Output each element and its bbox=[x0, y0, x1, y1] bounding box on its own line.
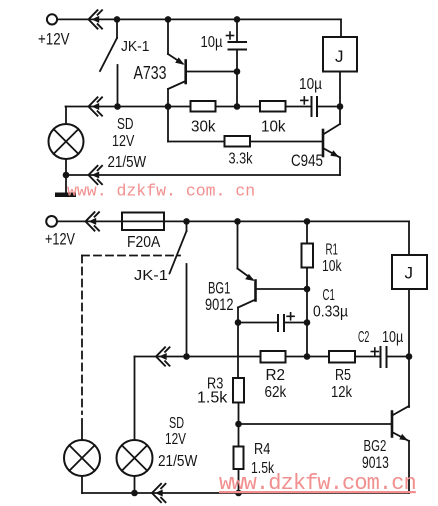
wire break mark bbox=[86, 212, 100, 230]
wire break mark rail4 bbox=[89, 166, 103, 184]
wire break mark (top rail) bbox=[89, 10, 103, 28]
wire break mark rail2 bbox=[89, 97, 103, 115]
svg-text:C2: C2 bbox=[358, 329, 369, 346]
node dots C1 bbox=[235, 319, 242, 326]
svg-text:J: J bbox=[335, 47, 344, 66]
node dot lamp bottom bbox=[63, 172, 70, 179]
label BG2 9013 bbox=[362, 438, 389, 472]
label SD 12V 21/5W bbox=[108, 116, 147, 171]
terminal +12V (top circuit) bbox=[47, 14, 57, 24]
resistor R2 bbox=[261, 351, 286, 363]
switch JK-1 (bottom circuit) bbox=[170, 221, 187, 356]
lamp SD (top circuit) bbox=[49, 107, 84, 194]
label C2 10u bbox=[358, 329, 403, 346]
wire rail3 (3.3k row) bbox=[168, 141, 323, 143]
wire top rail (bottom circuit) bbox=[57, 220, 409, 222]
node dot top rail / JK-1 bbox=[114, 16, 121, 23]
svg-text:www.dzkfw.com.cn: www.dzkfw.com.cn bbox=[219, 471, 416, 496]
transistor C945 (NPN) bbox=[323, 107, 340, 176]
label R3 1.5k bbox=[197, 376, 228, 407]
svg-text:10µ: 10µ bbox=[382, 329, 403, 346]
svg-text:12k: 12k bbox=[331, 384, 353, 401]
node dot R4/rail bbox=[235, 490, 242, 497]
svg-text:1.5k: 1.5k bbox=[197, 390, 228, 407]
node dot BG2 base bbox=[235, 421, 242, 428]
lamp 1 (bottom circuit) bbox=[64, 419, 100, 493]
svg-text:10µ: 10µ bbox=[299, 76, 322, 93]
svg-text:J: J bbox=[405, 264, 414, 283]
svg-text:12V: 12V bbox=[112, 133, 135, 150]
mechanical link (dashed) bbox=[82, 256, 180, 415]
resistor R3 bbox=[233, 378, 244, 447]
label SD 12V 21/5W (bottom) bbox=[158, 415, 198, 470]
resistor 30k bbox=[191, 101, 216, 112]
wire break mark bottom rail bbox=[152, 484, 166, 502]
transistor BG2 (NPN 9013) bbox=[239, 406, 410, 493]
wire break mark rail356 bbox=[156, 347, 170, 365]
relay J (top circuit) bbox=[323, 19, 357, 106]
label C1 0.33u bbox=[313, 287, 348, 321]
relay J (bottom circuit) bbox=[392, 221, 427, 407]
svg-text:R1: R1 bbox=[326, 242, 339, 259]
node dot C2/rail bbox=[406, 353, 413, 360]
svg-text:R2: R2 bbox=[266, 367, 286, 384]
resistor 3.3k bbox=[225, 136, 251, 147]
fuse F20A bbox=[122, 213, 164, 231]
svg-text:10µ: 10µ bbox=[201, 34, 223, 51]
svg-text:+12V: +12V bbox=[45, 231, 75, 249]
svg-text:10k: 10k bbox=[322, 258, 342, 275]
svg-text:A733: A733 bbox=[134, 62, 167, 83]
svg-text:C1: C1 bbox=[323, 287, 335, 304]
svg-text:21/5W: 21/5W bbox=[158, 453, 198, 470]
label R4 1.5k bbox=[251, 441, 275, 477]
label R1 10k bbox=[322, 242, 342, 276]
svg-text:C945: C945 bbox=[291, 151, 323, 170]
node dot top rail / C cap bbox=[234, 16, 241, 23]
svg-text:R4: R4 bbox=[254, 441, 270, 458]
wire top rail bbox=[57, 18, 341, 20]
svg-text:SD: SD bbox=[169, 415, 184, 432]
svg-text:30k: 30k bbox=[191, 119, 216, 136]
svg-text:21/5W: 21/5W bbox=[108, 154, 147, 171]
wire R1 node down bbox=[306, 289, 308, 357]
svg-text:3.3k: 3.3k bbox=[229, 151, 254, 168]
label BG1 9012 bbox=[205, 279, 234, 315]
label R2 62k bbox=[265, 367, 288, 401]
svg-text:JK-1: JK-1 bbox=[121, 38, 150, 55]
svg-text:9012: 9012 bbox=[205, 295, 234, 314]
node dot top rail / A733 emitter bbox=[165, 16, 172, 23]
transistor BG1 (PNP 9012) bbox=[238, 221, 308, 378]
wire rail2 bbox=[66, 106, 312, 108]
lamp 2 (bottom circuit) bbox=[117, 357, 153, 494]
svg-text:62k: 62k bbox=[265, 384, 288, 401]
resistor R4 bbox=[234, 447, 244, 494]
wire bottom rail bbox=[82, 492, 409, 494]
node dot base/R1 bbox=[304, 286, 311, 293]
svg-text:10k: 10k bbox=[261, 119, 286, 136]
capacitor C2 bbox=[371, 347, 409, 367]
label R5 12k bbox=[331, 367, 353, 401]
wire rail356 bbox=[135, 356, 381, 358]
capacitor 10u (vertical electrolytic) bbox=[227, 19, 247, 106]
node dots top rail bbox=[183, 218, 190, 225]
transistor A733 (PNP) bbox=[168, 19, 237, 141]
node dots rail356 bbox=[183, 353, 190, 360]
svg-text:+12V: +12V bbox=[38, 31, 70, 49]
svg-text:F20A: F20A bbox=[127, 234, 161, 251]
svg-text:0.33µ: 0.33µ bbox=[313, 304, 348, 321]
terminal +12V (bottom circuit) bbox=[46, 216, 57, 227]
resistor R5 bbox=[329, 351, 355, 363]
resistor 10k bbox=[260, 101, 286, 112]
node dots rail2 bbox=[114, 103, 121, 110]
node dot A733 base / cap bbox=[234, 68, 241, 75]
svg-text:www. dzkfw. com. cn: www. dzkfw. com. cn bbox=[67, 182, 255, 201]
capacitor C1 bbox=[238, 313, 307, 331]
capacitor 10u (horizontal electrolytic) bbox=[301, 97, 340, 116]
ground bbox=[55, 193, 76, 198]
wire rail4 (bottom of top circuit) bbox=[66, 174, 340, 176]
svg-text:12V: 12V bbox=[165, 431, 186, 448]
node dot lamp2/rail bbox=[131, 490, 138, 497]
svg-text:R5: R5 bbox=[335, 367, 351, 384]
switch JK-1 (top circuit) bbox=[100, 19, 118, 106]
svg-text:JK-1: JK-1 bbox=[134, 267, 168, 284]
svg-text:9013: 9013 bbox=[362, 453, 389, 472]
svg-text:SD: SD bbox=[117, 116, 134, 133]
resistor R1 bbox=[302, 221, 314, 289]
